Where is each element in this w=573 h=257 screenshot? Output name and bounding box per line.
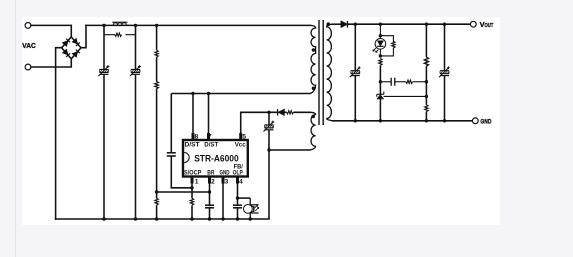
schematic white canvas: [22, 17, 500, 225]
node dot drain pin8: [191, 92, 194, 95]
faint page rule: [15, 0, 17, 257]
transformer T1 core: [319, 20, 323, 125]
svg-text:GND: GND: [220, 170, 231, 176]
Vcc supply wire: [241, 112, 311, 133]
damping resistor across choke: [104, 25, 136, 34]
svg-text:Vcc: Vcc: [235, 142, 247, 149]
primary dot lower: [312, 87, 316, 91]
node dot divider gnd: [155, 217, 158, 220]
node dots choke: [102, 24, 137, 27]
capacitor C-out2: [439, 66, 450, 77]
svg-text:4: 4: [239, 178, 243, 185]
Vout terminal: [470, 21, 476, 27]
GND terminal: [472, 118, 478, 124]
resistor R-BR2: [155, 82, 159, 89]
capacitor C-Vcc: [264, 121, 275, 132]
opto LED branch: [380, 24, 393, 58]
svg-text:3: 3: [225, 178, 229, 185]
resistor R-OCP: [190, 198, 193, 205]
resistor R-FB-low: [425, 105, 428, 112]
resistor R-FB-up: [424, 57, 428, 66]
top rail (bridge to transformer primary): [86, 24, 311, 26]
FB divider branch: [425, 24, 427, 121]
shunt regulator TL431: [377, 92, 427, 99]
resistor R-bias: [379, 59, 382, 66]
diode D-Vcc: [278, 109, 285, 116]
svg-text:D/ST: D/ST: [185, 142, 200, 149]
node dot pin3 gnd: [221, 217, 224, 220]
pin3 GND branch: [222, 183, 224, 219]
svg-text:STR-A6000: STR-A6000: [194, 153, 239, 163]
svg-text:VAC: VAC: [22, 41, 36, 50]
node dot drain pin7: [207, 92, 210, 95]
node dot OCP gnd: [190, 217, 193, 220]
capacitor C-BR plates: [205, 205, 214, 208]
node dot snubber-pin1: [190, 186, 193, 189]
wire bottom terminal to bridge bottom vertex: [31, 59, 71, 67]
pin2 BR branch: [209, 183, 211, 219]
pin4 FB branch: [238, 183, 251, 219]
secondary top rail: [332, 24, 472, 121]
bridge rectifier diamond: [62, 37, 81, 59]
IC pin stubs top: [192, 133, 241, 184]
primary winding upper: [311, 25, 316, 93]
IC pin stubs bottom: [191, 177, 194, 184]
svg-text:OUT: OUT: [485, 23, 494, 29]
aux winding: [311, 112, 316, 150]
secondary dot: [327, 22, 331, 26]
node dot C2 gnd: [134, 217, 137, 220]
node dot TL431 gnd: [379, 119, 382, 122]
snubber capacitor branch: [171, 94, 192, 188]
filter capacitor C1 branch: [103, 25, 105, 219]
node dot opto emitter gnd: [249, 217, 252, 220]
snubber capacitor plates: [167, 153, 176, 156]
bridge diode D-bottom-right: [72, 50, 80, 58]
Vcc capacitor branch: [269, 112, 311, 219]
AC terminal top: [25, 23, 31, 29]
opto LED PC1: [373, 39, 386, 53]
resistor R-BR1: [155, 50, 158, 57]
comp resistor: [406, 80, 413, 83]
node dots C-out1: [354, 23, 357, 123]
svg-text:GND: GND: [480, 119, 491, 126]
node dots C-out2: [443, 23, 446, 123]
node dot divider top: [155, 24, 158, 27]
capacitor C-out1: [350, 66, 361, 77]
node dot BR pin2: [208, 190, 211, 193]
ground rail primary: [56, 218, 269, 220]
drain wire D/ST: [171, 94, 310, 134]
output diode D-out: [341, 21, 347, 28]
svg-text:1: 1: [195, 178, 199, 185]
node dots LED branch: [379, 23, 382, 58]
bridge diode D-top-left: [63, 38, 80, 57]
filter capacitor C2 branch: [135, 25, 137, 219]
node dot aux return: [267, 148, 270, 151]
wire bridge left vertex to ground rail: [56, 48, 62, 219]
node dot CBR gnd: [208, 217, 211, 220]
svg-text:5: 5: [242, 134, 246, 141]
IC U1 STR-A6000 body: [183, 140, 248, 177]
output capacitor C-out1 branch: [354, 24, 356, 121]
bridge diode D-bottom-left: [63, 49, 71, 57]
BR sense wire to pin2: [157, 191, 210, 193]
BR divider branch wires: [156, 25, 158, 219]
node dot divider BR: [155, 190, 158, 193]
comp capacitor plates: [390, 78, 392, 86]
secondary winding: [327, 24, 332, 121]
resistor R-Vcc: [287, 111, 294, 114]
svg-text:7: 7: [208, 134, 212, 141]
aux dot: [311, 115, 315, 119]
primary winding lower: [311, 51, 316, 94]
filter capacitor C1: [99, 65, 110, 76]
node dot FB: [236, 196, 239, 199]
node dot CFB gnd: [236, 217, 239, 220]
resistor R-LED parallel: [392, 41, 395, 48]
pin1 S/OCP branch: [191, 183, 193, 219]
filter capacitor C2: [130, 65, 141, 76]
svg-text:S/OCP: S/OCP: [184, 170, 201, 176]
wire top terminal to bridge top vertex: [31, 25, 71, 37]
compensation network: [380, 78, 426, 86]
optocoupler phototransistor PC1: [244, 198, 259, 219]
bridge diode D-top-right: [72, 38, 80, 46]
svg-text:OLP: OLP: [233, 170, 243, 176]
svg-text:8: 8: [195, 134, 199, 141]
node dots FB divider: [425, 23, 428, 123]
primary dot upper: [312, 48, 316, 52]
choke core line: [112, 21, 127, 23]
output capacitor C-out2 branch: [444, 24, 446, 121]
wire bridge right vertex to top rail: [81, 25, 86, 47]
IC notch: [184, 153, 189, 163]
AC terminal bottom: [25, 64, 31, 70]
secondary bottom rail: [332, 120, 472, 122]
svg-text:BR: BR: [207, 170, 215, 176]
svg-text:2: 2: [211, 178, 215, 185]
capacitor C-FB plates: [233, 205, 242, 208]
node dot N1: [379, 80, 382, 83]
node dot Vcc cap: [267, 111, 270, 114]
resistor R-BR3: [155, 198, 158, 205]
choke L1 bumps: [112, 22, 127, 25]
svg-text:D/ST: D/ST: [204, 142, 218, 149]
node dot C1 gnd: [102, 217, 105, 220]
